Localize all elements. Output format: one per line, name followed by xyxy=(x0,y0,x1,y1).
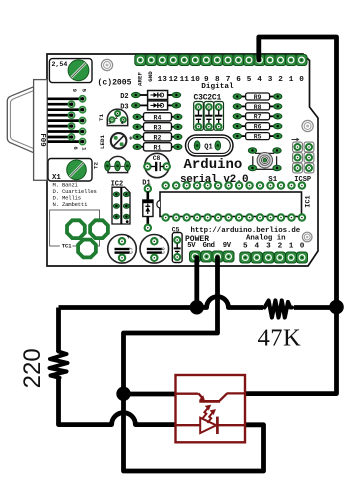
svg-text:C7: C7 xyxy=(128,247,134,253)
svg-text:R2: R2 xyxy=(154,134,162,141)
svg-text:Analog in: Analog in xyxy=(246,234,285,242)
reset button S1 xyxy=(253,153,277,169)
resistor 47K zigzag xyxy=(265,301,293,318)
svg-text:Digital: Digital xyxy=(201,83,234,91)
svg-text:5: 5 xyxy=(247,76,252,84)
LED cathode lead xyxy=(217,424,245,426)
svg-text:F09: F09 xyxy=(38,133,46,146)
Analog pads xyxy=(240,252,251,263)
svg-text:LED1: LED1 xyxy=(99,135,106,149)
optocoupler U1 box xyxy=(176,375,246,442)
svg-text:4: 4 xyxy=(257,76,262,84)
svg-text:+: + xyxy=(159,234,163,241)
svg-text:0: 0 xyxy=(300,242,305,250)
svg-text:6: 6 xyxy=(236,76,241,84)
resistor R7 xyxy=(237,115,246,117)
2,54 drill legend box xyxy=(49,59,92,83)
X1 power jack legend xyxy=(48,159,92,182)
resistor R3 xyxy=(138,126,145,128)
capacitor C2 xyxy=(204,102,214,131)
phototransistor emitter lead xyxy=(220,393,228,400)
svg-text:2: 2 xyxy=(115,115,118,121)
resistor R2 xyxy=(138,136,145,138)
svg-text:3: 3 xyxy=(266,242,271,250)
Digital header pads xyxy=(135,55,146,66)
POWER pads xyxy=(190,251,201,262)
phototransistor collector lead xyxy=(176,393,199,395)
screw hole bottom-right xyxy=(302,232,312,242)
svg-text:IC1: IC1 xyxy=(304,195,312,207)
resistor 220 zigzag xyxy=(50,352,68,378)
capacitor C7 xyxy=(108,235,137,264)
svg-text:9V: 9V xyxy=(223,242,232,250)
svg-text:+: + xyxy=(127,234,131,241)
TC1 silkscreen box xyxy=(50,210,100,246)
hexagon pad 2 xyxy=(90,220,108,238)
resistor R5 xyxy=(237,135,246,137)
svg-text:Arduino: Arduino xyxy=(184,157,243,173)
svg-text:3: 3 xyxy=(108,120,111,126)
svg-text:1: 1 xyxy=(289,76,294,84)
microcontroller IC1 xyxy=(163,182,169,188)
transistor T1 xyxy=(107,109,127,126)
screw hole right xyxy=(302,120,313,131)
svg-text:4: 4 xyxy=(254,242,259,250)
LED1 xyxy=(111,133,127,149)
svg-text:5V: 5V xyxy=(187,242,196,250)
light arrow 1 xyxy=(203,408,209,419)
svg-text:2,54: 2,54 xyxy=(52,61,68,68)
wire: junction to optocoupler emitter-out xyxy=(124,392,177,397)
capacitor C8 xyxy=(145,153,169,177)
phototransistor base bar xyxy=(199,400,220,403)
svg-text:R8: R8 xyxy=(254,104,262,111)
svg-text:GND: GND xyxy=(147,71,154,82)
capacitor C1 xyxy=(214,102,224,131)
svg-text:4: 4 xyxy=(121,120,124,126)
DB9 pins xyxy=(48,97,82,100)
resistor R9 xyxy=(237,96,246,98)
wire: Gnd pin down, left, down to junction xyxy=(124,258,218,391)
Arduino board outline xyxy=(47,54,318,266)
svg-text:10: 10 xyxy=(191,76,201,84)
svg-text:3: 3 xyxy=(268,76,273,84)
junction node B (rail/pin4 wire) xyxy=(329,300,344,315)
wire: horizontal 5V rail with hop over Gnd wire xyxy=(59,297,264,308)
wire: 220 bottom to LED anode with hop xyxy=(59,378,177,425)
LED cathode bar xyxy=(216,417,219,434)
svg-text:0: 0 xyxy=(299,76,304,84)
screw hole top-left xyxy=(101,59,112,70)
svg-text:T2: T2 xyxy=(93,162,100,169)
resistor R6 xyxy=(237,125,246,127)
svg-text:AREF: AREF xyxy=(137,72,144,86)
svg-text:N. Zambetti: N. Zambetti xyxy=(53,201,89,208)
svg-text:1: 1 xyxy=(289,242,294,250)
resonator Q1 xyxy=(186,135,234,156)
resistor R1 xyxy=(138,146,145,148)
svg-text:R9: R9 xyxy=(254,94,262,101)
LED triangle xyxy=(200,418,216,433)
svg-text:R7: R7 xyxy=(254,114,262,121)
wire: digital pin 4 to right rail down to optocoupler collector xyxy=(246,37,337,394)
junction node A (5V/rail) xyxy=(190,300,204,314)
collector arrowhead xyxy=(199,395,205,401)
junction node C (opto common) xyxy=(116,387,130,401)
svg-text:R4: R4 xyxy=(154,114,162,121)
svg-text:T1: T1 xyxy=(98,114,105,121)
svg-text:D2: D2 xyxy=(120,93,128,101)
svg-text:47K: 47K xyxy=(258,325,302,352)
hexagon pad 3 xyxy=(78,240,96,258)
svg-text:R5: R5 xyxy=(254,134,262,141)
svg-text:Q1: Q1 xyxy=(204,143,212,151)
svg-text:11: 11 xyxy=(180,76,190,84)
svg-text:R1: R1 xyxy=(154,144,162,151)
hexagon pad 1 xyxy=(67,220,85,238)
light arrow 2 xyxy=(207,412,213,423)
svg-text:C6: C6 xyxy=(161,247,167,253)
svg-text:Gnd: Gnd xyxy=(203,242,215,250)
svg-text:13: 13 xyxy=(158,76,168,84)
transistor T2 xyxy=(108,156,128,172)
capacitor C6 xyxy=(140,235,169,264)
DB9 serial connector F09 xyxy=(7,80,47,181)
wire: 220 branch vertical xyxy=(56,308,61,353)
svg-text:R6: R6 xyxy=(254,124,262,131)
svg-text:5: 5 xyxy=(243,242,248,250)
svg-text:12: 12 xyxy=(169,76,179,84)
wire: LED cathode loop to junction xyxy=(124,394,264,471)
svg-text:2: 2 xyxy=(278,242,283,250)
svg-text:TC1: TC1 xyxy=(62,243,72,249)
svg-text:+: + xyxy=(129,136,133,144)
resistor R4 xyxy=(138,116,145,118)
resistor R8 xyxy=(237,105,246,107)
wire: 5V pin down to rail xyxy=(194,258,199,306)
svg-text:C8: C8 xyxy=(153,155,161,162)
svg-text:(c)2005: (c)2005 xyxy=(98,78,132,87)
svg-text:2: 2 xyxy=(278,76,283,84)
svg-text:220: 220 xyxy=(19,348,46,388)
svg-text:R3: R3 xyxy=(154,124,162,131)
ICSP header xyxy=(293,142,303,152)
LED anode lead xyxy=(176,424,200,426)
capacitor C3 xyxy=(194,102,204,131)
